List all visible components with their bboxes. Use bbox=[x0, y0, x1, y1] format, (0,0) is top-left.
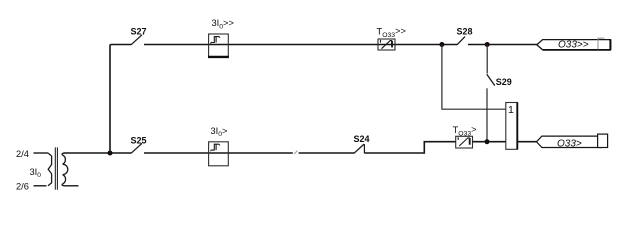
block 3I0>> bbox=[209, 34, 229, 57]
wire 2/4 stub bbox=[34, 152, 49, 154]
wire test point tick bbox=[294, 151, 297, 154]
svg-text:2/4: 2/4 bbox=[16, 149, 29, 159]
switch S29 bbox=[486, 45, 488, 74]
block 3I0> bbox=[209, 142, 229, 166]
svg-text:S27: S27 bbox=[131, 27, 147, 37]
timer T033>> bbox=[378, 39, 395, 50]
switch S24 bbox=[354, 144, 364, 153]
wire 2/6 stub bbox=[34, 185, 47, 187]
svg-text:O33>>: O33>> bbox=[558, 40, 589, 51]
transformer core bbox=[54, 147, 56, 189]
timer T033> bbox=[456, 136, 473, 148]
wire riser to top branch bbox=[110, 45, 131, 154]
svg-text:O33>: O33> bbox=[557, 138, 582, 149]
svg-text:S24: S24 bbox=[354, 134, 370, 144]
wire secondary output to junction bbox=[64, 152, 132, 154]
wire bottom branch seg3 with step up bbox=[364, 142, 456, 153]
svg-text:S29: S29 bbox=[496, 77, 512, 87]
svg-text:S25: S25 bbox=[131, 135, 147, 145]
wire timer to OR gate bbox=[473, 141, 506, 143]
svg-text:2/6: 2/6 bbox=[16, 181, 29, 191]
switch S25 bbox=[131, 143, 142, 153]
switch S27 bbox=[131, 35, 142, 45]
wire pre-S28 down to OR input bbox=[442, 45, 506, 110]
node junction timer output bbox=[485, 139, 490, 144]
output flag O33> bbox=[537, 136, 602, 147]
wire bottom branch seg1 bbox=[144, 152, 293, 154]
output flag O33>> bbox=[537, 40, 611, 50]
transformer CT secondary winding bbox=[62, 153, 68, 186]
wire OR output bbox=[517, 141, 537, 143]
svg-text:S28: S28 bbox=[457, 27, 473, 37]
wire bottom branch seg2 bbox=[299, 152, 355, 154]
transformer CT primary winding bbox=[48, 153, 52, 186]
node junction post-S28 bbox=[485, 42, 490, 47]
OR gate U1 bbox=[506, 103, 518, 150]
svg-text:1: 1 bbox=[508, 104, 514, 116]
node junction CT output bbox=[108, 151, 113, 156]
wire post S28 bbox=[468, 44, 538, 46]
wire secondary bottom stub bbox=[64, 185, 79, 187]
node junction pre-S28 bbox=[439, 42, 444, 47]
switch S28 bbox=[457, 37, 465, 45]
wire top branch bbox=[144, 44, 457, 46]
